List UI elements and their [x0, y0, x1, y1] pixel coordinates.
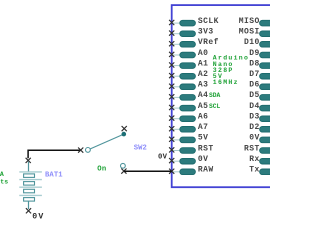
pin pad right D9 — [260, 52, 276, 58]
pin lead left VRef — [172, 43, 181, 45]
pin marker left A1 — [169, 62, 174, 67]
pin marker left 5V — [169, 137, 174, 142]
svg-text:On: On — [97, 165, 106, 173]
svg-text:D7: D7 — [249, 70, 260, 79]
pin pad left A0 — [180, 52, 196, 58]
switch SW2 lever contact dot — [122, 132, 127, 137]
pin marker left A5 — [169, 105, 174, 110]
svg-text:A6: A6 — [198, 113, 209, 122]
pin marker left 0V — [169, 158, 174, 163]
svg-text:A1: A1 — [198, 59, 209, 68]
svg-text:RST: RST — [198, 144, 214, 153]
pin pad left RAW — [180, 169, 196, 175]
battery BAT1 plates — [19, 171, 42, 173]
svg-text:D5: D5 — [249, 91, 260, 100]
pin lead left A4 — [172, 96, 181, 98]
pin marker left A6 — [169, 116, 174, 121]
pin lead left A0 — [172, 54, 181, 56]
switch SW2 on-throw circle — [121, 163, 126, 168]
pin pad left A2 — [180, 73, 196, 79]
pin marker left VRef — [169, 41, 174, 46]
svg-text:RAW: RAW — [198, 166, 214, 175]
battery BAT1 pin marker - — [26, 208, 31, 213]
pin marker left A0 — [169, 52, 174, 57]
svg-text:16MHz: 16MHz — [213, 79, 239, 86]
pin pad left VRef — [180, 42, 196, 48]
pin pad left A3 — [180, 84, 196, 90]
svg-text:SW2: SW2 — [134, 144, 147, 152]
svg-text:5V: 5V — [198, 134, 209, 143]
pin pad left A6 — [180, 116, 196, 122]
svg-text:3V3: 3V3 — [198, 28, 214, 37]
pin lead left RST — [172, 150, 181, 152]
svg-text:Rx: Rx — [249, 155, 260, 164]
pin pad right D8 — [260, 63, 276, 69]
IC U1 Arduino Nano body — [172, 5, 302, 187]
switch SW2 common pin marker — [78, 148, 83, 153]
svg-text:Tx: Tx — [249, 166, 260, 175]
pin pad left 0V — [180, 158, 196, 164]
pin pad right RST — [260, 148, 276, 154]
svg-text:A0: A0 — [198, 49, 209, 58]
pin pad right D10 — [260, 42, 276, 48]
pin marker left 3V3 — [169, 31, 174, 36]
pin lead left A2 — [172, 75, 181, 77]
pin lead left 5V — [172, 139, 181, 141]
pin lead left A7 — [172, 128, 181, 130]
svg-text:BAT1: BAT1 — [45, 172, 63, 180]
svg-text:D3: D3 — [249, 113, 260, 122]
pin pad right D6 — [260, 84, 276, 90]
pin lead left 3V3 — [172, 33, 181, 35]
svg-text:0V: 0V — [32, 213, 44, 222]
svg-text:D10: D10 — [244, 38, 260, 47]
battery BAT1 top lead — [28, 162, 30, 172]
svg-text:Batts: Batts — [0, 179, 8, 186]
pin lead left A1 — [172, 65, 181, 67]
pin marker left A4 — [169, 94, 174, 99]
switch SW2 on-throw pin marker — [121, 169, 126, 174]
svg-text:MISO: MISO — [239, 17, 260, 26]
pin pad left A7 — [180, 127, 196, 133]
svg-text:0V: 0V — [158, 154, 168, 162]
svg-text:A3: A3 — [198, 81, 209, 90]
pin pad right 0V — [260, 137, 276, 143]
pin marker left A2 — [169, 73, 174, 78]
battery BAT1 pin marker + — [26, 158, 31, 163]
pin marker left RST — [169, 147, 174, 152]
pin pad right D4 — [260, 105, 276, 111]
svg-text:A5: A5 — [198, 102, 209, 111]
pin pad left RST — [180, 148, 196, 154]
pin pad right Tx — [260, 169, 276, 175]
svg-text:A7: A7 — [198, 123, 209, 132]
pin pad right Rx — [260, 158, 276, 164]
svg-text:D9: D9 — [249, 49, 260, 58]
switch SW2 lever — [88, 134, 124, 150]
svg-text:0V: 0V — [249, 134, 260, 143]
pin pad right MOSI — [260, 31, 276, 37]
switch SW2 pivot circle — [86, 148, 91, 153]
battery BAT1 bottom lead — [28, 201, 30, 209]
pin lead left A5 — [172, 107, 181, 109]
pin pad left A1 — [180, 63, 196, 69]
svg-text:D8: D8 — [249, 59, 260, 68]
pin pad right MISO — [260, 20, 276, 26]
switch SW2 off-throw pin marker — [122, 126, 127, 131]
pin lead left RAW — [172, 171, 181, 173]
svg-text:SDA: SDA — [209, 92, 221, 99]
pin pad right D2 — [260, 127, 276, 133]
pin marker left RAW — [169, 169, 174, 174]
svg-text:SCLK: SCLK — [198, 17, 219, 26]
pin pad right D5 — [260, 95, 276, 101]
pin pad left 5V — [180, 137, 196, 143]
svg-text:D4: D4 — [249, 102, 260, 111]
svg-text:A4: A4 — [198, 91, 209, 100]
pin lead left SCLK — [172, 22, 181, 24]
svg-text:D6: D6 — [249, 81, 260, 90]
pin pad left 3V3 — [180, 31, 196, 37]
pin pad right D7 — [260, 73, 276, 79]
pin pad right D3 — [260, 116, 276, 122]
svg-text:VRef: VRef — [198, 38, 219, 47]
wire battery top to switch — [28, 150, 80, 158]
svg-text:MOSI: MOSI — [239, 28, 260, 37]
svg-text:0V: 0V — [198, 155, 209, 164]
pin pad left SCLK — [180, 20, 196, 26]
svg-text:D2: D2 — [249, 123, 260, 132]
pin lead left A3 — [172, 86, 181, 88]
pin lead left 0V — [172, 160, 181, 162]
svg-text:A2: A2 — [198, 70, 209, 79]
pin marker left A7 — [169, 126, 174, 131]
pin marker left A3 — [169, 84, 174, 89]
pin pad left A4 — [180, 95, 196, 101]
pin pad left A5 — [180, 105, 196, 111]
wire switch to RAW pin — [124, 170, 172, 172]
svg-text:SCL: SCL — [209, 103, 221, 110]
svg-text:4xAA: 4xAA — [0, 171, 4, 178]
pin marker left SCLK — [169, 20, 174, 25]
pin lead left A6 — [172, 118, 181, 120]
svg-text:RST: RST — [244, 144, 260, 153]
